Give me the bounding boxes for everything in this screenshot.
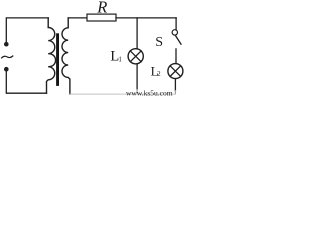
lamp L2 — [168, 64, 183, 79]
wire: switch lower terminal to lamp L2 — [175, 49, 177, 64]
svg-text:1: 1 — [118, 56, 122, 64]
svg-text:2: 2 — [157, 70, 161, 78]
transformer core — [56, 33, 59, 86]
resistor R — [87, 14, 116, 21]
switch S pivot circle — [172, 30, 177, 35]
transformer secondary coil (4 turns) — [62, 18, 70, 94]
wire: lamp L1 branch lower — [136, 64, 138, 90]
svg-text:R: R — [96, 0, 107, 16]
wire: primary top lead (left corner to primary coil) — [6, 18, 48, 42]
wire: left lower vertical and bottom-left horizontal — [6, 72, 46, 94]
wire: lamp L2 bottom lead — [174, 79, 176, 91]
wire: resistor to top-right corner — [116, 17, 176, 19]
svg-text:S: S — [155, 35, 163, 50]
svg-text:www.ks5u.com: www.ks5u.com — [126, 89, 173, 97]
wire: lamp L1 branch upper — [136, 18, 138, 49]
wire: bottom return (secondary side, faint) — [70, 93, 175, 95]
transformer primary coil (4 turns) — [47, 18, 56, 93]
AC source terminal dot (top) — [4, 42, 9, 47]
AC source terminal dot (bottom) — [4, 67, 9, 72]
wire: secondary top lead to resistor — [68, 17, 87, 19]
lamp L1 — [128, 49, 143, 64]
AC source tilde — [2, 56, 13, 58]
switch S blade — [176, 36, 181, 44]
wire: right branch upper (corner down to switch) — [175, 18, 177, 30]
